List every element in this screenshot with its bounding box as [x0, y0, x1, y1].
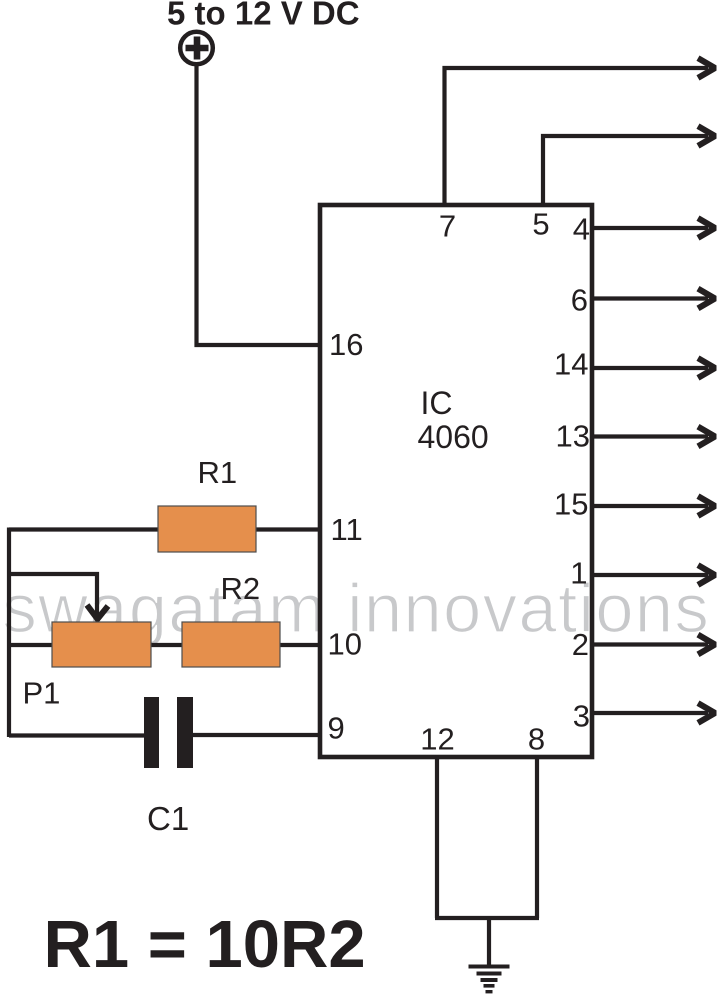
wire pin 2 output [592, 642, 708, 646]
arrowhead pin 3 [698, 703, 715, 723]
wire pin 8 down [535, 757, 539, 918]
arrowhead pin 13 [698, 427, 715, 447]
arrowhead pin 7 [698, 58, 715, 78]
svg-text:6: 6 [571, 283, 588, 318]
resistor R2 [182, 622, 280, 667]
svg-text:IC: IC [421, 385, 453, 421]
arrowhead pin 2 [698, 635, 715, 655]
wire pin 6 output [592, 296, 708, 300]
potentiometer P1 [52, 622, 151, 667]
svg-text:2: 2 [572, 627, 589, 662]
svg-text:8: 8 [528, 722, 545, 757]
svg-text:4060: 4060 [418, 419, 489, 455]
wire pin 13 output [592, 434, 708, 438]
arrowhead pin 4 [698, 218, 715, 238]
svg-text:15: 15 [554, 487, 588, 522]
wire pin 10 through P1 and R2 [9, 643, 320, 647]
svg-text:R1: R1 [198, 455, 238, 490]
capacitor C1 plate right [177, 697, 193, 768]
svg-text:5 to 12 V DC: 5 to 12 V DC [167, 0, 360, 32]
left bus wire [7, 528, 11, 738]
wire wiper branch [9, 574, 97, 615]
svg-text:12: 12 [420, 722, 454, 757]
wire ground stem [487, 918, 491, 966]
arrowhead pin 6 [698, 289, 715, 309]
wire pin 4 output [592, 226, 708, 230]
wire C1 to pin 9 [187, 733, 320, 737]
svg-text:4: 4 [573, 212, 590, 247]
svg-text:R2: R2 [221, 571, 261, 606]
arrowhead wiper [87, 605, 108, 619]
IC U1 4060 body [320, 205, 592, 757]
wire pin 11 to R1 node [9, 527, 320, 531]
arrowhead pin 1 [698, 565, 715, 585]
wire pin 15 output [592, 504, 708, 508]
svg-text:16: 16 [329, 327, 363, 362]
svg-text:7: 7 [439, 209, 456, 244]
resistor R1 [158, 506, 256, 552]
wire bottom joining 12 and 8 [435, 916, 539, 920]
svg-text:10: 10 [328, 627, 362, 662]
svg-text:5: 5 [532, 207, 549, 242]
ground symbol [469, 965, 510, 994]
svg-text:9: 9 [328, 711, 345, 746]
wire pin 5 output [543, 136, 708, 205]
wire pin 12 down [435, 757, 439, 918]
svg-text:3: 3 [573, 699, 590, 734]
capacitor C1 plate left [144, 697, 159, 768]
arrowhead pin 14 [698, 358, 715, 378]
svg-text:C1: C1 [147, 800, 189, 837]
wire supply to pin 16 [197, 65, 321, 346]
svg-text:14: 14 [554, 347, 588, 382]
svg-text:11: 11 [331, 512, 363, 547]
wire pin 14 output [592, 366, 708, 370]
arrowhead pin 5 [698, 126, 715, 146]
arrowhead pin 15 [698, 496, 715, 516]
svg-text:1: 1 [570, 556, 587, 591]
supply positive terminal [180, 32, 213, 65]
wire pin 3 output [592, 711, 708, 715]
svg-text:13: 13 [556, 419, 590, 454]
svg-text:R1 = 10R2: R1 = 10R2 [44, 907, 366, 982]
wire pin 1 output [592, 573, 708, 577]
wire pin 9 to C1 [9, 733, 150, 737]
svg-text:P1: P1 [23, 676, 61, 711]
wire pin 7 output [445, 68, 709, 205]
